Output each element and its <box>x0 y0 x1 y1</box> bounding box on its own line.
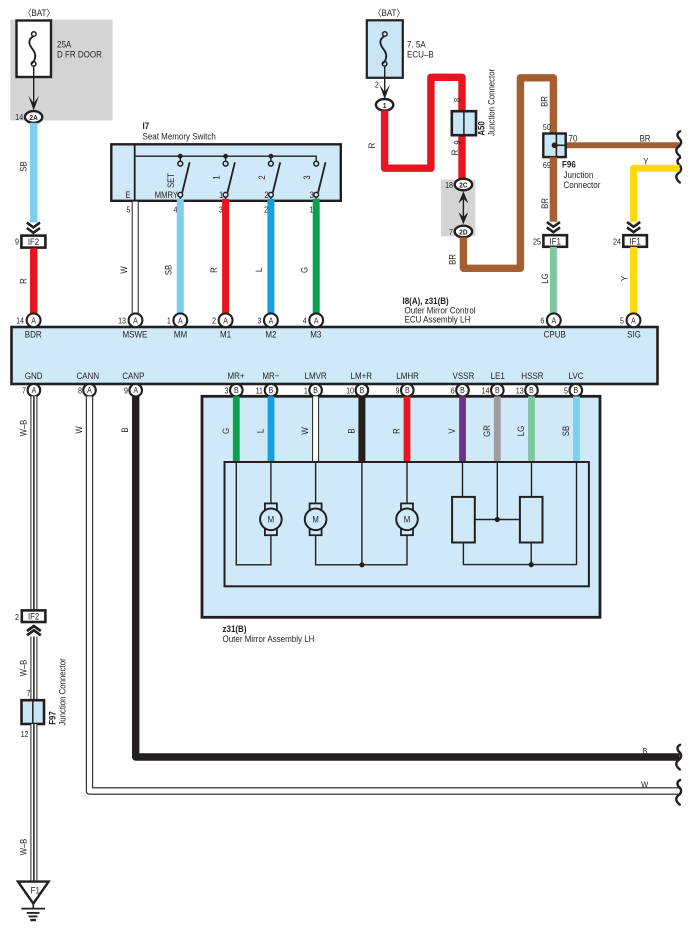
motor M3 <box>396 503 418 535</box>
wire to motor1 bottom <box>236 462 271 565</box>
svg-text:I7: I7 <box>143 120 150 131</box>
pin 2 A M1 <box>212 313 232 339</box>
wire W-B from IF2 to F97 <box>30 637 37 701</box>
svg-text:B: B <box>529 386 534 396</box>
wire L from 2 to M2 <box>267 199 274 316</box>
fuse block shield (grey) <box>10 20 112 121</box>
node dot resistors <box>529 562 534 567</box>
svg-text:9: 9 <box>453 140 463 145</box>
chevron into IF2 <box>27 223 40 233</box>
svg-text:W: W <box>118 266 129 273</box>
chevron into IF1 left <box>547 222 560 232</box>
svg-text:SET: SET <box>167 173 177 188</box>
svg-text:5: 5 <box>564 386 568 396</box>
svg-text:8: 8 <box>453 97 463 102</box>
pin 6 A CPUB <box>540 313 566 339</box>
wire LG HSSR into mirror <box>528 396 535 462</box>
pin 11 B MR- <box>256 384 278 397</box>
svg-text:IF1: IF1 <box>629 236 641 247</box>
wire resistor2 bottom to node <box>530 543 532 565</box>
svg-text:W–B: W–B <box>19 838 29 855</box>
wire break W <box>676 780 681 805</box>
wire W from CANN to right break <box>90 396 680 791</box>
pin 8 A CANN <box>78 384 96 397</box>
connector oval 2D <box>449 226 472 238</box>
wire resistor1 bottom to node <box>463 543 531 565</box>
pin 13 B HSSR <box>516 384 538 397</box>
svg-text:LM+R: LM+R <box>351 370 373 381</box>
svg-text:Connector: Connector <box>564 179 601 190</box>
wire V VSSR into mirror <box>459 396 466 462</box>
svg-text:LMHR: LMHR <box>396 370 419 381</box>
wire G MR+ into mirror <box>233 396 240 462</box>
svg-text:LG: LG <box>515 426 526 436</box>
wire R from 1 to A50 to 2C <box>385 77 462 180</box>
svg-text:B: B <box>234 386 239 396</box>
svg-text:A: A <box>178 316 183 326</box>
svg-text:6: 6 <box>451 386 455 396</box>
svg-text:BR: BR <box>539 198 550 209</box>
wire BR from F96 to IF1 <box>550 157 557 222</box>
svg-text:B: B <box>405 386 410 396</box>
wire SB from MMRY to MM <box>177 199 184 316</box>
pin 4 A M3 <box>303 313 323 339</box>
wire motor3 bottom to node <box>362 535 407 565</box>
wire GR LE1 into mirror <box>494 396 501 462</box>
svg-text:25: 25 <box>533 237 541 247</box>
svg-text:F97: F97 <box>47 711 58 725</box>
ECU title <box>403 295 476 324</box>
svg-text:14: 14 <box>16 316 25 326</box>
svg-text:Seat Memory Switch: Seat Memory Switch <box>143 131 216 142</box>
svg-text:R: R <box>449 150 460 156</box>
svg-text:24: 24 <box>613 237 622 247</box>
svg-text:B: B <box>642 747 647 757</box>
svg-text:B: B <box>313 386 318 396</box>
pin 5 B LVC <box>564 384 582 397</box>
inner mirror circuit box <box>225 462 589 586</box>
wire break BR <box>676 131 681 156</box>
svg-text:R: R <box>366 143 377 149</box>
svg-text:VSSR: VSSR <box>453 370 475 381</box>
wire R LMHR into mirror <box>404 396 411 462</box>
svg-text:9: 9 <box>396 386 400 396</box>
connector IF1 left <box>533 235 567 247</box>
node dot mid <box>495 517 500 522</box>
svg-text:5: 5 <box>620 316 624 326</box>
svg-text:SIG: SIG <box>627 329 641 340</box>
pin 3 B MR+ <box>225 384 243 397</box>
junction connector F96 <box>543 122 601 190</box>
wire LG from IF1 to CPUB <box>550 247 557 316</box>
svg-text:A: A <box>133 386 138 396</box>
svg-text:2: 2 <box>15 612 19 622</box>
svg-text:A: A <box>631 316 636 326</box>
pin 3 A M2 <box>257 313 277 339</box>
svg-text:BR: BR <box>447 254 458 265</box>
svg-text:LG: LG <box>539 273 550 283</box>
switch bus wire <box>134 144 136 201</box>
svg-text:BR: BR <box>539 96 550 107</box>
motor M1 <box>260 503 282 535</box>
svg-text:6: 6 <box>540 316 544 326</box>
svg-text:BR: BR <box>640 133 651 144</box>
svg-text:4: 4 <box>303 316 308 326</box>
svg-text:CPUB: CPUB <box>544 329 566 340</box>
svg-text:1: 1 <box>167 316 171 326</box>
svg-text:1: 1 <box>212 175 222 180</box>
svg-text:〈BAT〉: 〈BAT〉 <box>24 7 55 18</box>
svg-text:Junction Connector: Junction Connector <box>57 658 68 726</box>
connector IF2 top <box>15 236 45 248</box>
chevron out of IF2 (up) <box>27 626 41 635</box>
wire B to node <box>361 462 363 565</box>
svg-text:2C: 2C <box>459 182 467 189</box>
svg-text:W: W <box>641 780 648 790</box>
svg-text:B: B <box>119 427 130 433</box>
svg-text:3: 3 <box>225 386 229 396</box>
svg-text:MMRY: MMRY <box>155 190 179 200</box>
pin 9 B LMHR <box>396 384 414 397</box>
svg-text:CANN: CANN <box>76 370 99 381</box>
svg-text:B: B <box>495 386 500 396</box>
svg-text:2: 2 <box>257 175 267 180</box>
svg-text:B: B <box>573 386 578 396</box>
wire L MR- into mirror <box>268 396 275 462</box>
wire R from 1 to M1 <box>222 199 229 316</box>
svg-text:A: A <box>31 316 36 326</box>
svg-text:A: A <box>32 386 37 396</box>
svg-text:LE1: LE1 <box>491 370 505 381</box>
wire G from 3 to M3 <box>313 199 320 316</box>
switch 3 (2) <box>257 156 280 201</box>
svg-text:B: B <box>360 386 365 396</box>
switch 1 (SET/MMRY) <box>155 156 190 201</box>
connector oval 1 <box>376 99 393 111</box>
svg-text:A: A <box>269 316 274 326</box>
svg-text:Junction Connector: Junction Connector <box>486 69 497 137</box>
svg-text:M: M <box>404 514 411 525</box>
svg-text:3: 3 <box>303 175 313 180</box>
svg-text:IF1: IF1 <box>550 236 562 247</box>
wire Y from IF1 to SIG <box>630 247 637 316</box>
pin 9 A CANP <box>124 384 142 397</box>
pin 5 A SIG <box>620 313 641 339</box>
svg-text:2D: 2D <box>459 229 467 236</box>
pin 6 B VSSR <box>451 384 469 397</box>
svg-text:MR+: MR+ <box>227 370 244 381</box>
resistor2 <box>520 497 543 543</box>
wire SB from 2A down <box>30 123 37 223</box>
mid link between resistors <box>475 519 520 521</box>
connector IF1 right <box>613 235 647 247</box>
svg-text:Y: Y <box>643 156 649 167</box>
svg-text:14: 14 <box>482 386 491 396</box>
bus junction dots <box>178 154 183 159</box>
pin 1 A MM <box>167 313 187 339</box>
pin 7 A GND <box>22 384 40 397</box>
wire V to resistor1 <box>462 462 464 497</box>
svg-text:R: R <box>208 267 219 273</box>
svg-text:E: E <box>125 190 131 200</box>
svg-text:Y: Y <box>619 276 630 282</box>
svg-text:z31(B): z31(B) <box>223 623 247 634</box>
svg-text:D FR DOOR: D FR DOOR <box>57 49 102 60</box>
svg-text:W–B: W–B <box>19 419 29 436</box>
svg-text:A: A <box>551 316 556 326</box>
svg-text:14: 14 <box>15 113 24 123</box>
wire BR from F96 to right break <box>553 142 679 148</box>
svg-text:A: A <box>87 386 92 396</box>
svg-text:13: 13 <box>516 386 524 396</box>
svg-text:10: 10 <box>346 386 354 396</box>
switch 4 (3) <box>303 161 326 201</box>
svg-text:G: G <box>299 267 310 273</box>
shield box 2C 2D (grey) <box>441 180 475 237</box>
svg-text:8: 8 <box>78 386 82 396</box>
svg-text:HSSR: HSSR <box>521 370 543 381</box>
svg-text:69: 69 <box>543 161 551 171</box>
svg-text:2: 2 <box>375 80 379 90</box>
svg-text:G: G <box>220 428 231 434</box>
wire W LMVR into mirror <box>312 396 319 462</box>
svg-text:A: A <box>133 316 138 326</box>
svg-text:LMVR: LMVR <box>304 370 326 381</box>
svg-text:〈BAT〉: 〈BAT〉 <box>374 7 405 18</box>
svg-text:1: 1 <box>219 190 224 200</box>
double arrow between 2C and 2D <box>459 191 469 224</box>
svg-text:LVC: LVC <box>569 370 584 381</box>
pin 14 B LE1 <box>482 384 504 397</box>
svg-text:70: 70 <box>569 133 578 144</box>
pin 13 A MSWE <box>118 313 147 339</box>
outer mirror assembly box <box>202 396 600 617</box>
wire SB to node <box>531 462 576 565</box>
wire B from CANP to right break <box>136 396 680 757</box>
svg-text:2: 2 <box>264 190 269 200</box>
svg-text:F1: F1 <box>31 885 41 896</box>
svg-text:2A: 2A <box>29 115 37 122</box>
wire BR from 2D to F96 <box>463 78 553 268</box>
svg-text:M2: M2 <box>265 329 276 340</box>
motor M2 <box>305 503 327 535</box>
svg-text:IF2: IF2 <box>28 236 40 247</box>
chevron into IF1 right <box>627 222 640 232</box>
svg-text:9: 9 <box>124 386 128 396</box>
svg-text:M: M <box>312 514 319 525</box>
svg-text:9: 9 <box>15 237 19 247</box>
switch 2 (1) <box>212 156 235 201</box>
svg-text:MSWE: MSWE <box>122 329 147 340</box>
svg-text:B: B <box>269 386 274 396</box>
svg-text:MM: MM <box>174 329 187 340</box>
svg-text:GND: GND <box>25 370 43 381</box>
wire W-B from GND to IF2 <box>30 396 37 610</box>
svg-text:SB: SB <box>18 161 29 172</box>
svg-text:7: 7 <box>449 228 453 238</box>
svg-text:V: V <box>446 428 457 434</box>
svg-text:12: 12 <box>21 730 29 740</box>
wire Y from break to IF1 right <box>634 168 680 222</box>
connector oval 2C <box>445 179 472 191</box>
svg-text:18: 18 <box>445 181 453 191</box>
wire SB LVC into mirror <box>573 396 580 462</box>
wire break Y <box>676 158 681 183</box>
pin 14 A BDR <box>16 313 42 339</box>
wire W-B from F97 to ground <box>30 724 37 882</box>
svg-text:13: 13 <box>118 316 126 326</box>
svg-text:5: 5 <box>127 205 131 215</box>
node dot motors <box>359 562 364 567</box>
svg-text:M3: M3 <box>310 329 321 340</box>
resistor1 <box>452 497 475 543</box>
fuse 25A D FR DOOR <box>17 21 102 78</box>
wire to motor1 top <box>270 462 272 503</box>
svg-text:3: 3 <box>257 316 261 326</box>
svg-text:MR−: MR− <box>262 370 279 381</box>
ground F1 <box>18 882 49 920</box>
svg-text:L: L <box>255 429 266 434</box>
wire to motor3 top <box>406 462 408 503</box>
wire break B <box>676 745 681 770</box>
pin 1 B LMVR <box>304 384 322 397</box>
svg-text:Outer Mirror Assembly LH: Outer Mirror Assembly LH <box>223 634 315 645</box>
connector oval 2A <box>15 111 42 123</box>
fuse 7.5A ECU-B <box>367 20 434 78</box>
junction connector F97 <box>21 658 68 739</box>
svg-text:CANP: CANP <box>122 370 144 381</box>
connector IF2 bottom <box>15 610 45 622</box>
label z31(B) <box>223 623 315 644</box>
svg-text:SB: SB <box>163 264 174 275</box>
svg-text:ECU Assembly LH: ECU Assembly LH <box>405 314 471 325</box>
pin 10 B LM+R <box>346 384 368 397</box>
svg-text:2: 2 <box>212 316 216 326</box>
svg-text:M: M <box>268 514 275 525</box>
svg-text:BDR: BDR <box>25 329 42 340</box>
svg-text:1: 1 <box>383 102 387 109</box>
arrow from fuse to connector 1 <box>375 66 390 99</box>
wire LG to resistor2 <box>531 462 533 497</box>
wire to motor2 top <box>315 462 317 503</box>
svg-text:B: B <box>346 428 357 434</box>
svg-text:R: R <box>18 278 29 284</box>
svg-text:F96: F96 <box>562 159 576 170</box>
seat memory switch box <box>111 144 340 201</box>
svg-text:W: W <box>299 427 310 434</box>
svg-text:M1: M1 <box>220 329 231 340</box>
svg-text:3: 3 <box>310 190 315 200</box>
svg-text:A: A <box>314 316 319 326</box>
svg-text:IF2: IF2 <box>28 611 40 622</box>
svg-text:GR: GR <box>481 425 492 437</box>
svg-text:1: 1 <box>304 386 308 396</box>
svg-text:A: A <box>223 316 228 326</box>
wire R from IF2 to BDR pin <box>30 248 37 316</box>
svg-text:7: 7 <box>27 689 31 699</box>
wire motor2 bottom to node <box>316 535 362 565</box>
svg-text:SB: SB <box>560 425 571 436</box>
wire GR to mid node <box>496 462 498 520</box>
svg-text:R: R <box>391 428 402 434</box>
svg-text:11: 11 <box>256 386 263 396</box>
svg-text:W: W <box>73 426 84 433</box>
wire B LM+R into mirror <box>358 396 365 462</box>
svg-text:L: L <box>254 268 265 273</box>
svg-text:W–B: W–B <box>19 659 29 676</box>
junction connector A50 <box>452 69 497 145</box>
ECU strip box <box>12 327 658 384</box>
svg-text:7: 7 <box>22 386 26 396</box>
wire W from E to MSWE <box>132 202 139 316</box>
svg-text:ECU–B: ECU–B <box>407 49 434 60</box>
svg-text:50: 50 <box>543 122 551 132</box>
arrow from fuse to connector 2A <box>28 66 39 110</box>
svg-text:B: B <box>460 386 465 396</box>
